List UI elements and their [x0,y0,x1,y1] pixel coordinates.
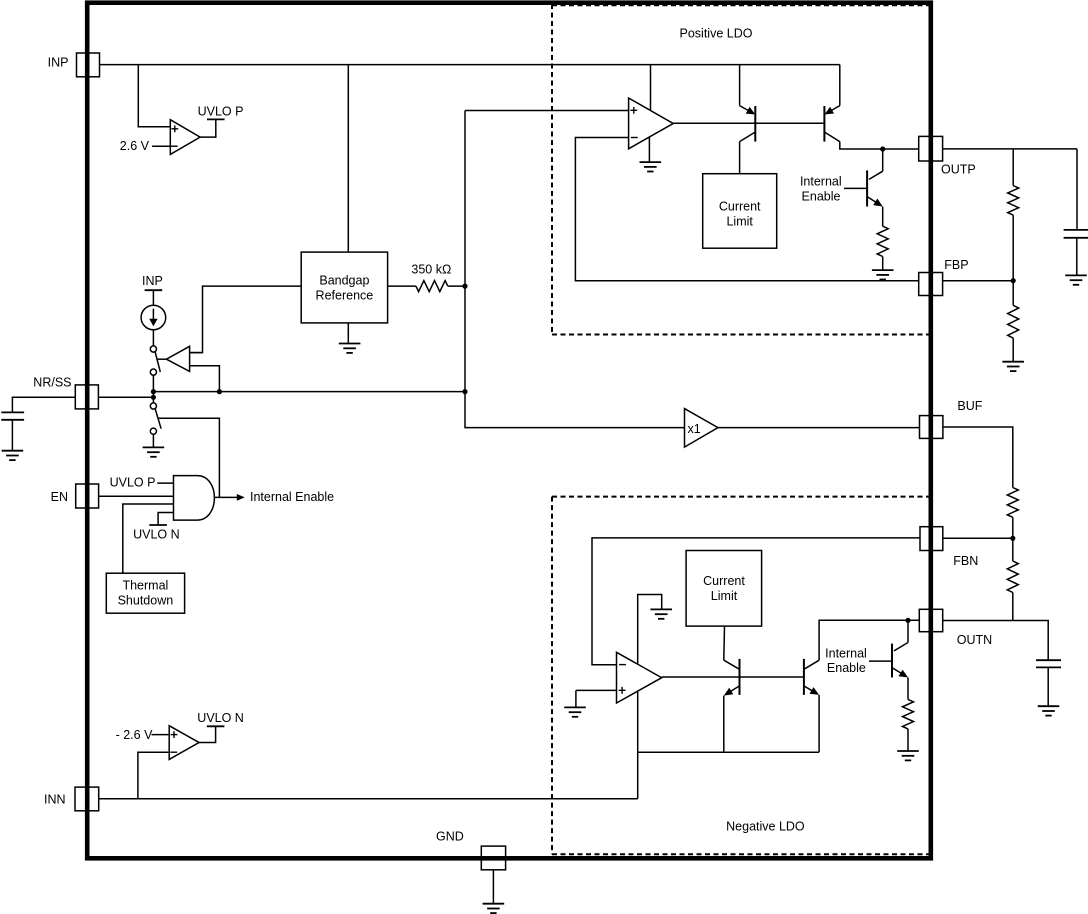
svg-text:Current: Current [719,199,761,213]
bandgap reference box [301,252,387,323]
wire FBN node to R6 [1012,538,1014,561]
svg-text:INP: INP [142,274,163,288]
wire U6 bottom input from reference node [190,366,220,392]
svg-text:Internal Enable: Internal Enable [250,490,334,504]
op-amp U4 negative error amplifier [617,652,662,703]
svg-text:Reference: Reference [316,288,374,302]
wire Q5 collector to OUTN [819,620,919,660]
svg-text:Internal: Internal [800,175,842,189]
wire UVLO N input to U7 [158,513,173,526]
wire OUTP to external divider and cap [943,148,1077,150]
AND gate U7 [174,476,215,520]
ground above U4 [650,609,672,618]
wire INP drop to UVLO P comparator [138,65,170,127]
wire C3 to ground [1047,667,1049,706]
wire 350k to reference node [448,285,465,287]
wire R7 to ground [907,729,909,751]
wire S2 control tap to internal enable [158,418,220,497]
wire S1 lower contact to NR/SS node [152,375,154,403]
wire U1 output to UVLO P terminal [200,119,216,137]
thermal shutdown box [106,573,184,613]
ground below R4 [1002,362,1024,371]
resistor R4 feedback bottom [1008,305,1019,338]
wire 2.6V to U1 inverting input [152,145,169,147]
wire OUTP to output capacitor [1076,149,1078,230]
wire FBN pin to divider [943,537,1013,539]
switch S2 (discharge) [150,403,156,409]
ground below bandgap [339,344,361,353]
wire INP drop to Q2 emitter [839,65,841,106]
svg-text:OUTN: OUTN [957,633,992,647]
ground below C3 [1038,706,1060,715]
op-amp U3 positive error amplifier [629,98,674,149]
wire OUTN to external cap [943,621,1048,661]
wire Q4 collector to current limit box [723,626,726,660]
wire C2 to ground [1076,238,1078,276]
svg-text:Limit: Limit [711,589,738,603]
ground below R7 [897,751,919,760]
node FBN divider [1010,536,1015,541]
transistor Q2 (pass PNP) [823,106,825,142]
svg-text:Bandgap: Bandgap [319,273,369,287]
svg-text:INP: INP [48,56,69,70]
wire U7 output internal enable [214,496,237,498]
wire U4 non-inverting input to ground [576,689,617,691]
pin FBP [919,273,943,296]
arrow internal enable [237,494,245,501]
wire Q2 collector to OUTP [840,142,919,149]
transistor Q6 internal enable pulldown negative [907,620,909,642]
node NR/SS junction B [151,395,156,400]
ground at U4 non-inverting input [564,707,586,716]
wire FBP pin to divider [943,280,1014,282]
ground below S2 [143,447,165,456]
svg-text:Negative LDO: Negative LDO [726,820,805,834]
wire divider branch down [1012,149,1014,186]
capacitor C1 NR/SS external [1,411,24,413]
comparator U2 UVLO N [169,726,199,760]
ground below C2 [1065,275,1087,284]
wire UVLO P input to U7 [157,482,173,484]
pin BUF [920,416,943,439]
ground below R2 [872,270,894,279]
svg-text:Positive LDO: Positive LDO [680,27,753,41]
svg-text:GND: GND [436,829,464,843]
svg-text:EN: EN [51,490,68,504]
wire U3 inverting input from FBP [575,138,918,281]
current limit box positive [703,174,777,249]
transistor Q4 (current limit sense NPN) [739,659,741,695]
svg-text:Shutdown: Shutdown [118,594,174,608]
pin GND [481,846,505,870]
pin INP [77,53,100,77]
wire U2 inverting input from INN [138,752,169,799]
ground below C1 [2,451,24,460]
node at NR/SS line for U6 input [217,389,222,394]
wire NR/SS pin to external capacitor [12,397,75,412]
current source I1 terminal INP [145,289,163,291]
node OUTN internal [905,618,910,623]
pin NR/SS [75,385,98,409]
wire U3 output to pass transistor bases [673,122,824,124]
transistor Q3 internal enable pulldown positive [882,149,884,171]
svg-text:UVLO P: UVLO P [198,105,244,119]
svg-text:FBP: FBP [944,258,968,272]
wire U4 output to NPN bases [662,676,804,678]
node FBP divider [1011,278,1016,283]
svg-text:FBN: FBN [953,554,978,568]
wire bandgap to ground [347,323,349,344]
comparator U1 UVLO P [170,120,200,155]
wire Q6 emitter to resistor [907,678,909,700]
wire INN emitter rail [638,751,819,753]
wire INP drop to Q1 emitter [739,65,741,106]
resistor R7 Q6 emitter [903,699,914,729]
wire U6 top input from bandgap [190,352,203,354]
svg-text:x1: x1 [688,422,701,436]
svg-text:Current: Current [703,574,745,588]
svg-text:Internal: Internal [825,646,867,660]
wire R5 to FBN node [1012,517,1014,538]
wire BUF pin to R5 [943,427,1013,488]
wire Q5 emitter to INN rail [818,695,820,752]
svg-text:UVLO N: UVLO N [133,528,180,542]
svg-text:BUF: BUF [957,399,982,413]
resistor R1 350 kOhm [416,281,448,292]
wire INP rail from INP pin across top [99,64,840,66]
Positive LDO dashed region [552,4,930,335]
node NR/SS junction A [151,389,156,394]
wire NR/SS line A [153,391,465,393]
svg-text:Thermal: Thermal [122,578,168,592]
pin INN [75,787,99,811]
switch S1 (fast charge) [150,346,156,352]
svg-text:- 2.6 V: - 2.6 V [116,728,153,742]
pin OUTN [919,609,942,631]
wire reference down to x1 buffer [465,392,685,428]
buffer U5 x1 [685,409,718,448]
svg-text:UVLO N: UVLO N [197,711,244,725]
wire R4 to ground [1012,338,1014,362]
node reference at NR/SS line [462,389,467,394]
wire bandgap output right to 350k resistor [388,285,416,287]
wire Q1 collector to current limit box [739,142,741,174]
node reference (350k output) [462,284,467,289]
wire EN pin to U7 [99,495,174,497]
terminal UVLO N (gate input) [149,524,167,526]
node OUTP internal [880,146,885,151]
svg-text:350 kΩ: 350 kΩ [411,262,451,276]
ground below GND pin [483,904,505,913]
wire FBN to negative error amp inverting input [592,538,920,665]
wire U4 positive supply tap to ground [638,595,662,664]
wire -2.6V to U2 non-inverting input [152,734,169,736]
svg-text:2.6 V: 2.6 V [120,139,150,153]
wire S2 to ground [152,434,154,447]
capacitor C3 OUTN output [1036,659,1061,661]
wire INP terminal to current source [152,290,154,305]
capacitor C2 OUTP output [1064,229,1088,231]
svg-text:NR/SS: NR/SS [33,376,71,390]
Negative LDO dashed region [552,497,930,855]
wire GND pin to ground [492,870,494,904]
wire reference rail vertical [464,111,466,392]
terminal UVLO N [207,725,225,727]
wire current source to switch S1 [152,330,154,346]
svg-text:Enable: Enable [802,190,841,204]
wire INP drop to bandgap reference [347,65,349,253]
pin OUTP [919,136,943,161]
transistor Q5 (pass NPN) [803,659,805,695]
svg-text:Limit: Limit [726,215,753,229]
wire U4 negative supply tap to INN rail [637,691,639,752]
pin FBN [920,527,943,551]
wire R2 to ground [882,257,884,271]
buffer U6 driving switch S1 [166,346,189,371]
wire U7 input from thermal shutdown [123,504,174,573]
svg-text:Enable: Enable [827,661,866,675]
resistor R3 feedback top [1008,186,1019,216]
wire U2 output to UVLO N terminal [199,726,216,742]
wire Q3 emitter to resistor [882,207,884,227]
wire C1 to ground [11,420,13,451]
wire U6 output to S1 arm [157,358,166,360]
wire INN rail down to INN line [637,752,639,799]
wire R6 to OUTN line [1012,593,1014,621]
wire Q4 emitter to INN rail [723,696,725,753]
current source I1 circle [141,305,166,330]
svg-text:OUTP: OUTP [941,162,976,176]
wire NR/SS pin to switch chain [98,396,153,398]
wire bandgap output left to NR/SS buffer [190,286,302,353]
resistor R2 Q3 emitter [877,226,888,256]
resistor R6 FBN to OUTN [1007,561,1018,593]
wire INN line [99,798,638,800]
wire reference to positive error amp non-inverting input [465,110,629,112]
pin EN [76,484,99,508]
transistor Q1 (current limit sense PNP) [754,106,756,142]
wire INP drop to positive error amp supply [650,65,652,111]
current limit box negative [686,551,762,627]
chip boundary (thick border) [87,3,931,859]
wire U3 ground tap [648,137,650,162]
svg-text:UVLO P: UVLO P [110,476,156,490]
wire R3 to FBP node [1012,215,1014,281]
svg-text:INN: INN [44,793,66,807]
wire U5 output to BUF pin [718,427,920,429]
terminal UVLO P [207,118,225,120]
wire FBP node to R4 [1012,281,1014,306]
resistor R5 BUF to FBN [1007,488,1018,518]
ground below U3 [640,162,662,171]
